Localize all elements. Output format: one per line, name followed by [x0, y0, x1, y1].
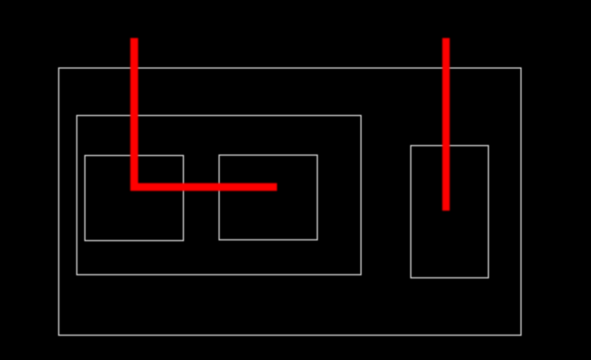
wire W1 (red L-shaped)	[134, 38, 277, 187]
small box B	[219, 155, 317, 240]
outer rectangle	[59, 68, 521, 335]
small box A	[85, 156, 183, 241]
wire W2 (red vertical)	[442, 38, 449, 211]
right box	[411, 146, 489, 278]
inner group rectangle	[77, 116, 361, 275]
